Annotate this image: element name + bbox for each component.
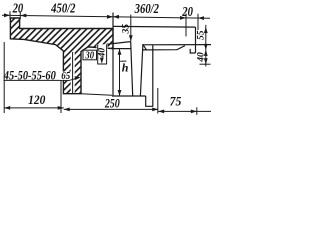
svg-text:30: 30: [85, 49, 95, 61]
svg-text:250: 250: [104, 97, 120, 110]
svg-text:35: 35: [121, 24, 131, 35]
svg-text:40: 40: [97, 48, 107, 59]
svg-text:h: h: [122, 60, 129, 74]
svg-text:120: 120: [28, 92, 45, 107]
svg-text:40: 40: [196, 52, 206, 63]
svg-text:55: 55: [196, 30, 206, 40]
svg-text:450/2: 450/2: [50, 0, 75, 16]
svg-text:20: 20: [12, 0, 24, 16]
svg-text:75: 75: [170, 94, 182, 109]
svg-text:20: 20: [181, 4, 193, 20]
svg-text:65: 65: [61, 70, 70, 82]
svg-text:360/2: 360/2: [134, 1, 159, 17]
